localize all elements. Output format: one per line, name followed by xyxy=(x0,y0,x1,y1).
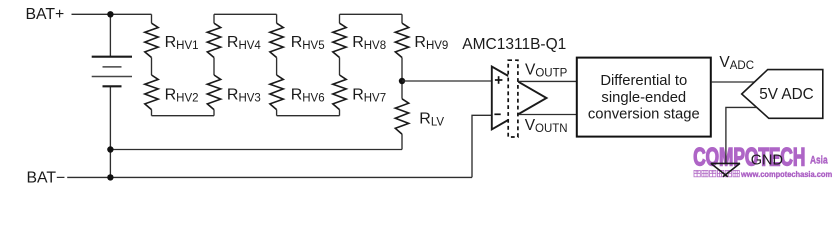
svg-text:RHV3: RHV3 xyxy=(227,86,261,104)
svg-text:BAT+: BAT+ xyxy=(26,6,65,23)
svg-text:COMPOTECH: COMPOTECH xyxy=(693,143,805,171)
svg-text:VADC: VADC xyxy=(719,54,754,72)
svg-text:VOUTP: VOUTP xyxy=(525,62,568,80)
svg-text:RHV6: RHV6 xyxy=(291,86,325,104)
svg-text:AMC1311B-Q1: AMC1311B-Q1 xyxy=(462,36,566,53)
svg-text:RHV2: RHV2 xyxy=(165,86,199,104)
svg-text:GND: GND xyxy=(751,153,783,169)
svg-text:RHV9: RHV9 xyxy=(414,34,448,52)
svg-text:conversion stage: conversion stage xyxy=(588,107,700,123)
svg-text:RHV1: RHV1 xyxy=(165,34,199,52)
svg-text:RHV7: RHV7 xyxy=(352,86,386,104)
svg-text:www.compotechasia.com: www.compotechasia.com xyxy=(740,170,832,180)
svg-text:RHV4: RHV4 xyxy=(227,34,262,52)
svg-text:single-ended: single-ended xyxy=(601,90,686,106)
svg-text:Asia: Asia xyxy=(810,154,828,166)
svg-text:RHV8: RHV8 xyxy=(352,34,386,52)
svg-text:BAT−: BAT− xyxy=(27,169,66,186)
svg-text:Differential to: Differential to xyxy=(600,73,687,89)
svg-text:VOUTN: VOUTN xyxy=(525,117,568,135)
svg-text:RLV: RLV xyxy=(419,110,444,128)
svg-text:5V ADC: 5V ADC xyxy=(759,86,813,103)
svg-text:RHV5: RHV5 xyxy=(291,34,325,52)
